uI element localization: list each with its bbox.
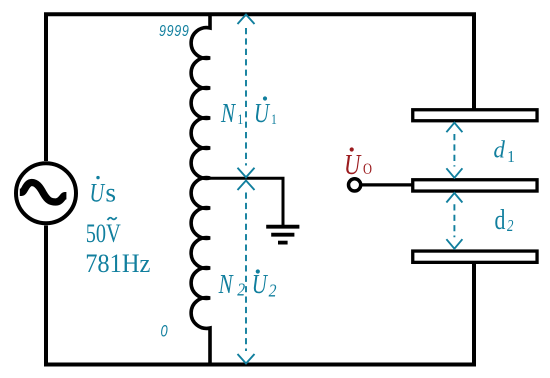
- svg-text:N1: N1: [220, 99, 243, 129]
- svg-text:s: s: [105, 176, 116, 207]
- svg-text:2: 2: [237, 280, 245, 300]
- svg-text:d2: d2: [495, 206, 514, 236]
- svg-text:UO: UO: [344, 148, 372, 180]
- svg-text:U: U: [252, 270, 269, 300]
- svg-text:781Hz: 781Hz: [85, 250, 150, 278]
- svg-text:0: 0: [161, 323, 169, 341]
- svg-text:d1: d1: [494, 137, 515, 166]
- svg-text:U: U: [90, 179, 107, 208]
- svg-text:U1: U1: [254, 99, 277, 129]
- svg-text:N: N: [218, 270, 235, 300]
- svg-text:2: 2: [269, 281, 277, 301]
- svg-text:9999: 9999: [159, 23, 190, 41]
- svg-text:50V: 50V: [86, 220, 121, 249]
